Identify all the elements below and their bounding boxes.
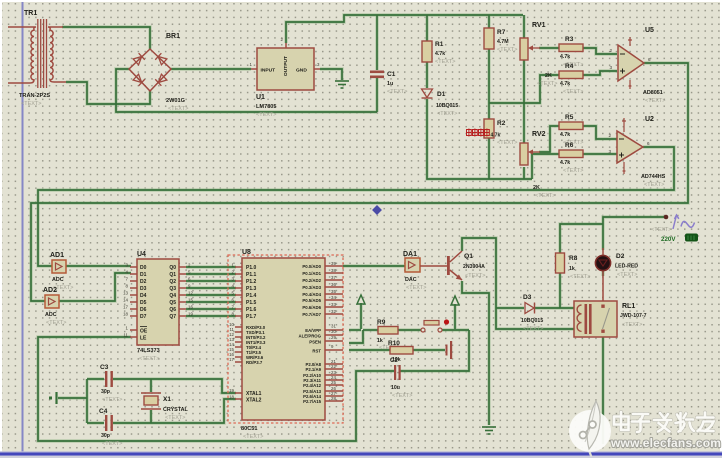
wire X1 bottom lead <box>150 410 152 423</box>
wire RST to R10 <box>349 349 390 351</box>
resistor R6 <box>559 142 583 174</box>
svg-text:<TEXT>: <TEXT> <box>102 441 122 447</box>
resistor R3 <box>559 36 583 68</box>
svg-text:D4: D4 <box>140 293 147 299</box>
wire BR1 plus to U1 input <box>171 68 251 70</box>
svg-text:TR1: TR1 <box>24 10 37 17</box>
svg-text:2K: 2K <box>545 73 552 79</box>
svg-text:OUTPUT: OUTPUT <box>283 56 289 76</box>
svg-text:RD/P3.7: RD/P3.7 <box>246 360 263 365</box>
wire C1 bottom lead <box>376 78 378 112</box>
svg-text:Q7: Q7 <box>169 314 176 320</box>
wire BR1 AC- to TR1 secondary bottom <box>66 82 150 104</box>
svg-text:RST: RST <box>312 349 321 354</box>
wire RV2 wiper to R5 <box>539 126 559 152</box>
wire BR1 minus to 0V rail and C1 bottom <box>116 69 377 112</box>
wire RV2 bottom lead <box>523 167 525 179</box>
svg-text:P0.6/AD6: P0.6/AD6 <box>302 305 321 310</box>
svg-text:74LS373: 74LS373 <box>137 348 160 354</box>
svg-text:CRYSTAL: CRYSTAL <box>163 407 189 413</box>
wire to D3 anode <box>496 307 524 309</box>
push button <box>421 319 449 332</box>
wire U4 Q2 to U8 P1.2 <box>186 280 236 282</box>
crystal X1 <box>141 393 189 421</box>
svg-text:R3: R3 <box>565 36 574 43</box>
potentiometer RV2 <box>520 131 555 199</box>
svg-text:Q1: Q1 <box>464 253 473 260</box>
svg-text:25: 25 <box>331 380 336 385</box>
wire R8 bottom join <box>559 273 561 308</box>
svg-text:P0.1/AD1: P0.1/AD1 <box>302 271 321 276</box>
resistor R1 <box>422 41 455 65</box>
svg-text:R7: R7 <box>497 29 506 36</box>
svg-text:10BQ015: 10BQ015 <box>436 103 458 109</box>
svg-text:<TEXT>: <TEXT> <box>563 168 583 174</box>
svg-text:R5: R5 <box>565 114 574 121</box>
svg-text:6: 6 <box>647 141 650 146</box>
svg-text:<TEXT>: <TEXT> <box>651 227 671 233</box>
wire R5 to U2 pin2 <box>583 126 617 139</box>
wire R1 top lead <box>426 15 428 41</box>
resistor R8 <box>556 253 591 280</box>
svg-text:LE: LE <box>140 336 147 342</box>
wire AD1 output to U4 D0 <box>66 265 131 267</box>
svg-text:D6: D6 <box>140 307 147 313</box>
voltage regulator U1 LM7805 <box>250 37 320 118</box>
op-amp U2 <box>608 116 665 188</box>
wire reset power arrow stem <box>454 304 456 329</box>
svg-text:Q0: Q0 <box>169 265 176 271</box>
svg-text:<TEXT>: <TEXT> <box>21 101 41 107</box>
wire Q1 emitter to ground <box>462 281 489 425</box>
svg-text:4.7M: 4.7M <box>497 39 509 45</box>
wire RV1 wiper to R3 <box>539 47 559 49</box>
latch U4 74LS373 <box>123 251 193 362</box>
svg-text:U5: U5 <box>645 27 654 34</box>
svg-text:D7: D7 <box>140 314 147 320</box>
svg-text:Q2: Q2 <box>169 279 176 285</box>
svg-text:31: 31 <box>331 324 336 329</box>
svg-text:JWD-107-7: JWD-107-7 <box>620 313 647 319</box>
svg-text:P2.7/A15: P2.7/A15 <box>303 399 322 404</box>
wire C1 top tap <box>376 15 378 70</box>
svg-text:X1: X1 <box>163 396 171 403</box>
power arrow (EA) <box>357 295 365 304</box>
svg-text:D2: D2 <box>140 279 147 285</box>
transistor Q1 <box>420 251 485 280</box>
svg-text:<TEXT>: <TEXT> <box>406 285 426 291</box>
svg-text:P1.0: P1.0 <box>246 265 257 271</box>
svg-text:D0: D0 <box>140 265 147 271</box>
svg-text:<TEXT>: <TEXT> <box>243 434 263 440</box>
sheet border (blue) <box>22 2 24 452</box>
wire EA power arrow stem <box>360 303 362 329</box>
svg-text:TRAN-2P2S: TRAN-2P2S <box>19 93 50 99</box>
svg-text:AD8051: AD8051 <box>643 90 663 96</box>
wire D3 cathode to relay coil top <box>535 307 575 309</box>
svg-text:15: 15 <box>188 298 193 303</box>
svg-text:22: 22 <box>331 364 336 369</box>
svg-text:Q4: Q4 <box>169 293 176 299</box>
wire R6 to U2 pin3 <box>583 153 617 155</box>
svg-text:<TEXT>: <TEXT> <box>617 272 637 278</box>
svg-text:P1.7: P1.7 <box>246 314 257 320</box>
svg-text:11: 11 <box>123 333 128 338</box>
svg-text:ADC: ADC <box>52 277 64 283</box>
resistor R2 (photoresistor) <box>467 119 518 146</box>
wire crystal bottom to XTAL2 <box>113 399 236 423</box>
svg-text:P0.7/AD7: P0.7/AD7 <box>302 312 321 317</box>
svg-text:4.7k: 4.7k <box>560 132 570 138</box>
svg-text:18: 18 <box>123 312 128 317</box>
wire crystal top left <box>87 378 104 380</box>
wire AD2 output to U4 D1 <box>59 273 131 301</box>
wire U4 Q7 to U8 P1.7 <box>186 315 236 317</box>
svg-text:<TEXT>: <TEXT> <box>497 140 517 146</box>
svg-text:<TEXT>: <TEXT> <box>644 182 664 188</box>
svg-text:D1: D1 <box>140 272 147 278</box>
resistor R4 <box>559 63 583 95</box>
svg-text:<TEXT>: <TEXT> <box>535 193 555 199</box>
svg-text:LED-RED: LED-RED <box>615 264 638 270</box>
svg-text:37: 37 <box>331 275 336 280</box>
svg-text:38: 38 <box>331 268 336 273</box>
svg-text:Q6: Q6 <box>169 307 176 313</box>
relay RL1 <box>574 301 647 337</box>
svg-text:<TEXT>: <TEXT> <box>645 98 665 104</box>
wire divider junction to R4 <box>489 75 559 103</box>
wire EA row <box>349 329 361 331</box>
svg-text:18: 18 <box>229 395 234 400</box>
svg-text:DAC: DAC <box>405 277 417 283</box>
origin marker <box>372 205 382 215</box>
svg-text:3: 3 <box>609 65 612 70</box>
wire U4 Q6 to U8 P1.6 <box>186 308 236 310</box>
svg-text:P0.5/AD5: P0.5/AD5 <box>302 298 321 303</box>
svg-text:C3: C3 <box>100 364 109 371</box>
ADC buffer AD1 <box>50 252 73 291</box>
svg-text:U4: U4 <box>137 251 146 258</box>
svg-text:39: 39 <box>331 261 336 266</box>
wire U1 output pin3 to ground <box>320 69 342 80</box>
wire crystal left vertical <box>86 379 88 423</box>
svg-text:RL1: RL1 <box>622 303 635 310</box>
op-amp U5 <box>609 27 665 104</box>
power arrow (reset) <box>451 296 459 305</box>
wire R6 to reference loop <box>532 154 559 179</box>
svg-text:ADC: ADC <box>45 312 57 318</box>
svg-text:<TEXT>: <TEXT> <box>465 273 485 279</box>
svg-text:17: 17 <box>229 357 234 362</box>
wire RV1 top lead <box>523 15 525 38</box>
svg-text:OE: OE <box>140 329 148 335</box>
resistor R10 <box>388 340 413 363</box>
svg-text:4.7k: 4.7k <box>435 51 445 57</box>
svg-text:33: 33 <box>331 302 336 307</box>
wire R4 to U5 pin3 <box>583 71 617 75</box>
resistor R9 <box>377 319 399 351</box>
svg-text:R4: R4 <box>565 63 574 70</box>
svg-text:R2: R2 <box>497 120 506 127</box>
ADC buffer AD2 <box>43 287 66 326</box>
svg-text:10BQ015: 10BQ015 <box>521 318 543 324</box>
svg-text:P2.1/A9: P2.1/A9 <box>305 367 321 372</box>
wire reset loop right side <box>400 330 469 371</box>
svg-text:<TEXT>: <TEXT> <box>563 89 583 95</box>
svg-text:4.7k: 4.7k <box>491 133 501 139</box>
svg-text:4.7k: 4.7k <box>560 160 570 166</box>
wire R7 bottom to R2 top <box>488 49 490 119</box>
wire Q1 collector to relay coil <box>462 238 575 329</box>
svg-text:30p: 30p <box>101 433 110 439</box>
MCU U8 80C51 <box>228 249 343 440</box>
svg-text:<TEXT>: <TEXT> <box>570 274 590 280</box>
svg-text:P0.0/AD0: P0.0/AD0 <box>302 264 321 269</box>
wire R3 to U5 pin2 <box>583 48 617 54</box>
wire RV1 bottom to RV2 top <box>523 60 525 143</box>
svg-text:<TEXT>: <TEXT> <box>437 111 457 117</box>
svg-text:1k: 1k <box>377 338 383 344</box>
svg-text:AD1: AD1 <box>50 252 64 259</box>
svg-text:2K: 2K <box>533 185 540 191</box>
resistor R5 <box>559 114 583 146</box>
svg-text:www.elecfans.com: www.elecfans.com <box>610 436 721 450</box>
svg-text:C4: C4 <box>99 408 108 415</box>
wire R7 top lead <box>488 15 490 28</box>
wire crystal bottom left <box>87 422 104 424</box>
svg-text:U1: U1 <box>256 94 265 101</box>
ground terminal near crystal <box>49 392 57 404</box>
svg-text:PSEN: PSEN <box>309 340 321 345</box>
svg-text:2: 2 <box>609 48 612 53</box>
svg-text:EA/VPP: EA/VPP <box>305 328 321 333</box>
svg-text:3: 3 <box>608 149 611 154</box>
diode D3 <box>521 294 543 332</box>
svg-text:AD744HS: AD744HS <box>641 174 666 180</box>
svg-text:R10: R10 <box>388 340 400 347</box>
bridge rectifier BR1 <box>129 33 188 112</box>
svg-text:<TEXT>: <TEXT> <box>165 415 185 421</box>
DAC buffer DA1 <box>403 251 426 291</box>
wire ground terminal to crystal loop <box>58 397 87 399</box>
svg-text:P1.2: P1.2 <box>246 279 257 285</box>
wire D2 to relay contact <box>602 271 604 276</box>
svg-text:4.7k: 4.7k <box>560 81 570 87</box>
wire U4 Q0 to U8 P1.0 <box>186 266 236 268</box>
capacitor C1 <box>370 71 407 96</box>
wire R2 bottom lead <box>488 138 490 179</box>
wire R10 to C5 <box>413 349 445 351</box>
svg-text:34: 34 <box>331 295 336 300</box>
svg-text:17: 17 <box>123 305 128 310</box>
svg-text:D5: D5 <box>140 300 147 306</box>
svg-text:XTAL1: XTAL1 <box>246 391 262 397</box>
svg-text:1u: 1u <box>387 81 393 87</box>
svg-text:4.7k: 4.7k <box>560 54 570 60</box>
capacitor C4 <box>99 408 122 447</box>
wire U4 Q5 to U8 P1.5 <box>186 301 236 303</box>
ground (emitter) <box>482 427 496 434</box>
svg-text:D3: D3 <box>140 286 147 292</box>
svg-text:R8: R8 <box>569 255 578 262</box>
svg-text:R9: R9 <box>377 319 386 326</box>
svg-text:AD2: AD2 <box>43 287 57 294</box>
wire R9 row down to PSEN <box>349 330 363 343</box>
svg-text:<TEXT>: <TEXT> <box>392 393 412 399</box>
svg-text:14: 14 <box>123 298 128 303</box>
AC source 220V <box>651 215 698 243</box>
svg-text:D3: D3 <box>523 294 532 301</box>
svg-text:6: 6 <box>648 57 651 62</box>
transformer TR1 <box>8 10 66 107</box>
svg-text:P0.2/AD2: P0.2/AD2 <box>302 278 321 283</box>
svg-text:ALE/PROG: ALE/PROG <box>299 334 322 339</box>
svg-text:2W01G: 2W01G <box>166 98 185 104</box>
svg-text:19: 19 <box>188 312 193 317</box>
svg-text:R1: R1 <box>435 41 444 48</box>
svg-text:<TEXT>: <TEXT> <box>168 106 188 112</box>
svg-text:Q5: Q5 <box>169 300 176 306</box>
svg-text:16: 16 <box>188 305 193 310</box>
svg-text:GND: GND <box>296 68 307 74</box>
ground near U1 <box>335 81 349 88</box>
wire U4 Q1 to U8 P1.1 <box>186 273 236 275</box>
svg-text:BR1: BR1 <box>166 33 180 40</box>
svg-text:D1: D1 <box>437 91 446 98</box>
svg-text:220V: 220V <box>661 236 676 243</box>
svg-text:<TEXT>: <TEXT> <box>387 89 407 95</box>
svg-text:28: 28 <box>331 396 336 401</box>
diode D1 <box>422 89 459 117</box>
svg-text:P1.4: P1.4 <box>246 293 257 299</box>
wire to R9 left <box>363 329 378 331</box>
svg-text:RV1: RV1 <box>532 22 546 29</box>
wire TR1 secondary top to BR1 AC+ <box>62 27 150 49</box>
svg-text:<TEXT>: <TEXT> <box>622 322 642 328</box>
svg-text:30: 30 <box>331 329 336 334</box>
wire U5 output rail to AD2 input <box>31 63 688 301</box>
svg-text:RV2: RV2 <box>532 131 546 138</box>
svg-text:<TEXT>: <TEXT> <box>46 320 66 326</box>
svg-text:U8: U8 <box>242 249 251 256</box>
wire relay contact bottom down <box>602 336 604 444</box>
resistor R7 <box>484 28 517 53</box>
svg-text:2N3904A: 2N3904A <box>463 264 485 270</box>
svg-text:P1.1: P1.1 <box>246 272 257 278</box>
wire U1 pin2 riser to +5V rail <box>286 15 523 43</box>
svg-text:<TEXT>: <TEXT> <box>102 397 122 403</box>
svg-text:<TEXT>: <TEXT> <box>435 59 455 65</box>
svg-text:2: 2 <box>608 133 611 138</box>
capacitor C2 <box>390 358 412 399</box>
svg-text:13: 13 <box>123 291 128 296</box>
wire U4 Q4 to U8 P1.4 <box>186 294 236 296</box>
watermark logo <box>569 401 611 457</box>
svg-text:35: 35 <box>331 289 336 294</box>
svg-text:P1.6: P1.6 <box>246 307 257 313</box>
svg-text:Q3: Q3 <box>169 286 176 292</box>
svg-text:P1.3: P1.3 <box>246 286 257 292</box>
wire D1 bottom to reference loop <box>427 99 532 179</box>
svg-text:P0.3/AD3: P0.3/AD3 <box>302 285 321 290</box>
wire button to loop <box>442 329 469 331</box>
LED D2 <box>595 248 638 305</box>
capacitor C3 <box>100 364 122 403</box>
svg-text:LM7805: LM7805 <box>256 104 277 110</box>
wire R1 bottom to D1 <box>426 62 428 88</box>
wire U2 output rail to AD1 input <box>38 147 674 266</box>
svg-text:<TEXT>: <TEXT> <box>256 112 276 118</box>
svg-text:<TEXT>: <TEXT> <box>497 47 517 53</box>
svg-text:30p: 30p <box>101 389 110 395</box>
svg-text:<TEXT>: <TEXT> <box>523 326 543 332</box>
svg-text:XTAL2: XTAL2 <box>246 398 262 404</box>
svg-text:R6: R6 <box>565 142 574 149</box>
svg-text:INPUT: INPUT <box>261 68 276 74</box>
svg-text:P0.4/AD4: P0.4/AD4 <box>302 292 321 297</box>
svg-text:Q1: Q1 <box>169 272 176 278</box>
svg-text:10u: 10u <box>391 385 400 391</box>
wire R8 top to D2 node <box>560 224 603 253</box>
svg-text:36: 36 <box>331 282 336 287</box>
wire crystal top to XTAL1 <box>113 379 236 393</box>
svg-text:<TEXT>: <TEXT> <box>139 356 159 362</box>
wire U4 LE to left drop and bottom rail <box>38 337 394 441</box>
wire D2 node to AC terminal <box>603 217 664 250</box>
wire R9 to button <box>397 329 421 331</box>
svg-text:C2: C2 <box>390 358 398 364</box>
svg-text:32: 32 <box>331 309 336 314</box>
svg-text:P1.5: P1.5 <box>246 300 257 306</box>
svg-text:12: 12 <box>188 291 193 296</box>
svg-text:P2.4/A12: P2.4/A12 <box>303 383 322 388</box>
svg-text:29: 29 <box>331 335 336 340</box>
wire X1 top lead <box>150 379 152 392</box>
potentiometer RV1 <box>520 22 557 87</box>
watermark text <box>614 412 714 432</box>
svg-text:DA1: DA1 <box>403 251 417 258</box>
svg-text:D2: D2 <box>616 253 625 260</box>
svg-text:U2: U2 <box>645 116 654 123</box>
wire U4 Q3 to U8 P1.3 <box>186 287 236 289</box>
svg-text:1k: 1k <box>569 266 575 272</box>
svg-text:80C51: 80C51 <box>241 426 257 432</box>
capacitor C5 (reset) <box>446 341 453 359</box>
wire U8 P0.0 to DA1 <box>343 265 405 267</box>
svg-text:C1: C1 <box>387 71 396 78</box>
svg-text:<TEXT>: <TEXT> <box>537 81 557 87</box>
svg-text:19: 19 <box>229 388 234 393</box>
